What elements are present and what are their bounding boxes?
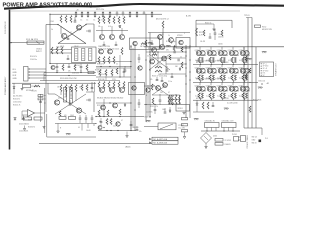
wire double into box	[50, 50, 72, 54]
resistor R147	[155, 66, 162, 68]
capacitor C117b	[115, 42, 118, 46]
label centre right values	[171, 43, 182, 68]
resistor R223	[70, 85, 72, 92]
svg-text:P-8: P-8	[265, 138, 268, 140]
label centre lower	[150, 106, 158, 108]
resistor R127	[103, 17, 105, 24]
transistor Q101	[61, 33, 66, 38]
svg-text:SP +L: SP +L	[263, 63, 267, 65]
resistor R151b in network box	[203, 30, 205, 36]
svg-text:C101: C101	[50, 21, 54, 23]
node dots centre lower2	[145, 94, 173, 105]
output transistor pair Q213/Q218	[217, 47, 229, 65]
label (C)	[227, 103, 238, 105]
node dots bottom mid2	[96, 123, 112, 131]
resistor R144	[108, 57, 110, 64]
svg-text:470: 470	[64, 115, 67, 117]
capacitor C203 filler	[91, 84, 94, 89]
capacitor C127	[171, 73, 174, 78]
label A 1W right of rail	[186, 15, 191, 18]
resistor R230	[118, 82, 120, 89]
resistor R171	[215, 143, 231, 147]
svg-text:47k: 47k	[68, 71, 71, 73]
resistor R152 mount	[255, 25, 273, 31]
output transistor pair Q223/Q228	[217, 64, 229, 82]
label network box rows	[200, 41, 223, 46]
resistor R256 on bus2	[249, 106, 251, 113]
transistor Q206 in box	[132, 86, 136, 90]
svg-text:MT200 0.22 5W MT200 0.22 5W: MT200 0.22 5W MT200 0.22 5W MT200	[196, 61, 225, 63]
capacitor C141	[79, 115, 82, 123]
svg-text:INPUT: INPUT	[36, 51, 43, 53]
resistor R133b in bias box	[145, 40, 147, 46]
resistor R239 filler	[106, 119, 108, 125]
label output row small text	[196, 61, 229, 64]
svg-text:R162 4.7k: R162 4.7k	[13, 104, 20, 106]
connector CN204 body	[238, 136, 246, 142]
diode D104	[14, 118, 16, 120]
svg-text:NO. A-0827-00A: NO. A-0827-00A	[153, 138, 168, 141]
label bottomleft r2	[28, 127, 35, 129]
transistor Q115	[152, 48, 157, 53]
capacitor C103	[56, 64, 59, 73]
label centre lower values	[160, 92, 170, 94]
svg-text:R163 470: R163 470	[28, 127, 35, 129]
filled node square	[259, 140, 262, 143]
svg-text:100/50: 100/50	[218, 37, 224, 39]
transistor Q207	[101, 105, 106, 110]
svg-text:Q214: Q214	[228, 50, 232, 52]
svg-text:C118 0.33: C118 0.33	[72, 73, 79, 75]
svg-text:220: 220	[160, 92, 163, 94]
wire lower mid rail	[96, 116, 144, 118]
label SP RELAY	[32, 91, 38, 93]
resistor R221	[60, 85, 62, 92]
resistor R118 on top rail	[136, 11, 138, 17]
ground triangle bottomleft a	[22, 116, 24, 121]
svg-text:Q234: Q234	[228, 85, 232, 87]
svg-text:CN203 AC OUT: CN203 AC OUT	[222, 119, 234, 122]
svg-text:VR 2k: VR 2k	[140, 46, 144, 48]
svg-text:100/100: 100/100	[133, 127, 139, 129]
svg-text:2.2k: 2.2k	[159, 64, 162, 66]
part number box A-0827	[152, 137, 178, 141]
wire bottom mid bus	[98, 130, 136, 132]
svg-text:0.22: 0.22	[239, 60, 242, 62]
wire centre clutter b	[158, 52, 166, 74]
svg-text:15k: 15k	[57, 87, 60, 89]
svg-text:0.1: 0.1	[78, 127, 80, 129]
wire cluster top	[169, 95, 180, 104]
resistor R146	[121, 48, 123, 55]
output transistor pair Q232/Q237	[206, 82, 218, 100]
thin top sheet edge	[10, 10, 240, 12]
label right edge bottom	[265, 138, 268, 140]
label lower X speck	[64, 115, 67, 117]
svg-text:220: 220	[158, 74, 161, 76]
vertical bus V8	[149, 33, 151, 119]
node dots protect	[44, 95, 45, 103]
diode D105	[179, 68, 181, 70]
fuse F101	[11, 41, 44, 44]
transistor Q102	[76, 25, 81, 30]
wire CN201 feed lines	[254, 60, 256, 62]
capacitor C221	[100, 118, 103, 126]
svg-text:Q225: Q225	[239, 67, 243, 69]
label centre values	[147, 50, 169, 66]
label mid values	[97, 64, 118, 74]
resistor R131	[123, 17, 125, 24]
transistor Q120	[51, 66, 55, 70]
svg-text:470 2.2k 100: 470 2.2k 100	[98, 74, 107, 76]
svg-text:C130 10/50: C130 10/50	[13, 101, 21, 103]
wire output bus B2	[193, 63, 258, 65]
ground chassis RY	[145, 117, 151, 123]
wire mid cross	[96, 67, 131, 78]
pin 3 of CN101	[13, 75, 47, 77]
connector CN203 body	[222, 119, 237, 127]
resistor R153 in network box	[221, 30, 223, 36]
transistor Q108	[169, 38, 174, 43]
resistor R254 on bus	[244, 74, 247, 80]
svg-text:47k: 47k	[150, 79, 153, 81]
output transistor pair Q214/Q219	[228, 47, 240, 65]
label RY201	[179, 125, 186, 130]
resistor R125b	[74, 65, 76, 71]
resistor R150	[196, 28, 204, 37]
resistor R170a filler	[99, 70, 101, 76]
resistor R137	[61, 47, 63, 54]
resistor R158	[181, 47, 183, 52]
svg-text:Q202: Q202	[70, 115, 74, 117]
dot junctions bus V9	[185, 47, 190, 80]
ground triangle SP relay	[21, 88, 35, 92]
label filler row M1	[98, 74, 107, 76]
wire R to driver	[86, 92, 94, 112]
resistor R172a filler	[111, 70, 113, 76]
svg-text:1k: 1k	[51, 29, 53, 31]
svg-text:4.7k: 4.7k	[108, 26, 111, 28]
label bottom left mid specks	[78, 127, 91, 132]
capacitor C120	[178, 59, 179, 62]
svg-text:1k: 1k	[168, 35, 170, 37]
resistor R247	[168, 95, 170, 104]
transistor Q205	[120, 88, 125, 93]
resistor R159	[173, 46, 175, 51]
pin 6 of CN201	[261, 75, 266, 77]
wire mid horizontal a	[50, 63, 96, 65]
svg-text:0.22: 0.22	[228, 60, 231, 62]
svg-text:Q224: Q224	[228, 67, 232, 69]
transistor Q201	[54, 100, 59, 105]
transistor Q113	[108, 49, 113, 54]
resistor R135	[51, 47, 53, 54]
capacitor C126	[124, 66, 127, 71]
svg-text:BTL: BTL	[263, 73, 266, 75]
resistor R126	[98, 17, 100, 24]
wire +B rail top	[144, 46, 284, 48]
pins of CN202	[207, 128, 216, 132]
output transistor pair Q212/Q217	[206, 47, 218, 65]
resistor R122	[65, 16, 67, 23]
capacitor C116	[103, 42, 106, 46]
svg-text:100/50: 100/50	[218, 44, 223, 46]
svg-text:2SC3281: 2SC3281	[222, 98, 229, 100]
vertical bus V7	[145, 14, 147, 122]
device stripe column 1 in box	[75, 49, 78, 61]
resistor R253 on bus	[249, 68, 251, 83]
resistor R226	[98, 82, 100, 89]
vertical bus V5	[130, 45, 132, 131]
wire to driver	[86, 24, 94, 42]
resistor R116 on top rail	[108, 11, 110, 21]
transistor Q208	[113, 103, 118, 108]
capacitor C114	[143, 11, 146, 14]
transistor Q217	[163, 83, 168, 88]
svg-text:0.22: 0.22	[239, 95, 242, 97]
svg-text:1k: 1k	[86, 19, 88, 21]
wire bottom verticals	[82, 124, 94, 131]
svg-text:A 1W: A 1W	[186, 15, 191, 18]
resistor R164	[34, 117, 42, 120]
transistor Q203	[100, 88, 105, 93]
svg-text:+B2: +B2	[266, 83, 269, 85]
wire mid clutter	[96, 55, 131, 77]
svg-text:C100 10u: C100 10u	[30, 59, 37, 61]
resistor R167 stack	[182, 118, 188, 120]
left border of schematic sheet	[9, 10, 11, 150]
wire centre lower cross	[152, 84, 168, 95]
resistor R117 on top rail	[129, 11, 131, 17]
svg-text:BDX 0806: BDX 0806	[253, 100, 261, 102]
op-amp U101 comparator	[28, 110, 35, 117]
svg-text:Q212: Q212	[206, 50, 210, 52]
capacitor C218	[138, 99, 141, 108]
ground chassis near Q108	[166, 46, 171, 48]
wire top supply rail	[50, 13, 162, 15]
output transistor pair Q231/Q236	[195, 82, 207, 100]
capacitor C119	[174, 51, 175, 54]
resistor R124	[62, 65, 64, 71]
wire diff-pair cross R b	[55, 94, 86, 114]
label filler mid rows	[98, 79, 116, 81]
upper mid box	[72, 47, 97, 63]
output transistor pair Q233/Q238	[217, 82, 229, 100]
resistor R128	[108, 17, 110, 24]
svg-text:R142 470: R142 470	[97, 64, 104, 66]
resistor R222	[65, 85, 67, 92]
label row mid page	[97, 98, 123, 100]
resistor R136	[56, 47, 58, 54]
pin 1 of CN201	[261, 63, 267, 65]
wire stub filler	[96, 76, 120, 81]
label centre parts	[152, 76, 167, 78]
transistor Q116	[160, 45, 165, 50]
capacitor C112 on top rail	[116, 11, 119, 17]
node dots mid	[100, 61, 131, 78]
svg-text:SW +B: SW +B	[252, 137, 258, 139]
svg-text:1k: 1k	[147, 56, 149, 58]
ground chassis right of array	[262, 52, 267, 54]
resistor R229	[113, 82, 115, 89]
svg-text:IN L: IN L	[13, 69, 16, 71]
title text POWER AMP ASS'Y	[3, 2, 93, 8]
transistor Q218	[146, 88, 150, 92]
device stripe column 3 in box	[89, 49, 92, 61]
wire centre horizontal	[148, 32, 190, 34]
resistor R224	[75, 85, 77, 92]
resistor R157	[116, 68, 118, 74]
label centre gap specks	[150, 74, 172, 83]
resistor R261	[207, 102, 209, 109]
wire protect verticals	[41, 88, 45, 133]
ground bridge	[204, 144, 207, 149]
label array row gap 1	[196, 61, 225, 63]
label extra CN101 rows	[30, 56, 37, 61]
svg-text:220: 220	[79, 87, 82, 89]
capacitor C125	[214, 29, 224, 40]
capacitor C230	[212, 102, 215, 107]
vertical bus V2	[247, 47, 249, 128]
wire fuse to border	[10, 42, 11, 43]
wire output bus B3	[193, 81, 258, 83]
label bridge	[213, 136, 217, 138]
ground chassis bottom D	[194, 119, 199, 121]
label C118 033	[72, 73, 79, 75]
capacitor C124	[166, 66, 169, 71]
svg-text:Q222: Q222	[206, 67, 210, 69]
vertical device box L2	[70, 88, 73, 104]
ground chassis near Q107	[148, 43, 153, 45]
svg-text:Q215: Q215	[239, 50, 243, 52]
wire centre cross a	[149, 54, 170, 70]
svg-text:47: 47	[121, 120, 123, 122]
svg-text:D104 1N4002: D104 1N4002	[19, 124, 29, 126]
label SPEAKER vertical	[275, 62, 278, 76]
capacitor C202	[69, 100, 72, 105]
wire cluster ties	[169, 95, 180, 104]
svg-text:Q211: Q211	[195, 50, 199, 52]
svg-text:R151 1k: R151 1k	[205, 23, 211, 25]
label bias box specks	[140, 34, 164, 48]
label Q201 Q202	[58, 98, 74, 118]
label bottom mid specks	[99, 120, 139, 129]
wire TP vertical pair	[248, 18, 252, 47]
capacitor C226	[136, 126, 142, 133]
svg-text:R251 10: R251 10	[259, 81, 265, 83]
ground chassis lower array	[224, 108, 229, 110]
capacitor C201	[86, 99, 90, 102]
svg-text:MT-200: MT-200	[196, 98, 202, 100]
capacitor C104	[68, 64, 71, 68]
transistor Q109 in driver box	[179, 40, 183, 44]
label R151 in network box	[205, 23, 211, 25]
svg-text:1k: 1k	[101, 19, 103, 21]
svg-text:R125 15k: R125 15k	[96, 9, 104, 11]
connector CN201 body	[260, 62, 274, 77]
ground triangle bottomleft b	[23, 126, 45, 131]
label filler row L1	[56, 71, 82, 73]
capacitor C106	[67, 55, 70, 60]
svg-text:Q223: Q223	[217, 67, 221, 69]
capacitor C102	[74, 17, 77, 22]
output transistor pair Q235/Q240	[239, 82, 251, 100]
transistor Q204	[110, 88, 115, 93]
label in X specks	[70, 32, 72, 34]
resistor R249	[175, 95, 177, 104]
resistor R236 filler	[81, 85, 83, 91]
wire bottom mid rail	[55, 123, 96, 125]
svg-text:2.2k: 2.2k	[113, 126, 116, 128]
capacitor C118	[138, 54, 141, 63]
output transistor pair Q234/Q239	[228, 82, 240, 100]
svg-text:1k: 1k	[80, 19, 82, 21]
vertical label signal in	[4, 76, 7, 95]
svg-text:SE-B02 SE-B02 SE-B02 SE-: SE-B02 SE-B02 SE-B02 SE-B02	[97, 98, 123, 100]
svg-text:POWER AMP ASS’Y: POWER AMP ASS’Y	[4, 76, 7, 95]
capacitor C225	[164, 108, 167, 113]
resistor R233	[107, 110, 109, 116]
label near box L	[74, 65, 80, 67]
driver box	[176, 38, 190, 49]
transistor Q107	[158, 35, 163, 40]
svg-text:C140 100/25: C140 100/25	[19, 131, 28, 133]
wire centre cross b	[149, 54, 170, 70]
node dots bottom mid	[99, 116, 131, 131]
resistor R250	[179, 95, 181, 104]
svg-text:1k: 1k	[116, 64, 118, 66]
resistor R140	[162, 21, 164, 28]
wire protect drop	[45, 83, 47, 112]
connector CN101 body	[24, 67, 29, 82]
node dots centre lower	[147, 85, 176, 117]
vertical label POWER TRANS	[246, 134, 249, 148]
resistor R228	[108, 82, 110, 89]
resistor R125c	[86, 65, 88, 71]
ground triangle centre	[183, 112, 186, 114]
wire Q101 emitter	[58, 26, 86, 44]
resistor R114 on top rail	[93, 11, 95, 21]
svg-text:Q232: Q232	[206, 85, 210, 87]
svg-text:SP GND: SP GND	[263, 70, 270, 72]
resistor R160	[34, 85, 40, 87]
resistor R241 filler	[59, 111, 61, 116]
label Q101	[60, 46, 78, 48]
output transistor pair Q224/Q229	[228, 64, 240, 82]
svg-text:10k 1W: 10k 1W	[200, 41, 206, 43]
vertical bus V9	[185, 45, 187, 118]
svg-text:D205: D205	[213, 136, 217, 138]
resistor R161	[38, 95, 43, 97]
svg-text:Q231: Q231	[195, 85, 199, 87]
svg-text:0.22: 0.22	[217, 95, 220, 97]
resistor R119	[151, 11, 153, 17]
svg-text:Q233: Q233	[217, 85, 221, 87]
svg-text:5100-0P90-00: 5100-0P90-00	[5, 20, 7, 34]
resistor R248	[172, 95, 174, 104]
svg-text:0.22: 0.22	[195, 95, 198, 97]
label protect	[28, 120, 32, 122]
label bottomleft r1	[19, 124, 29, 126]
resistor R260	[202, 102, 204, 109]
svg-text:0.22: 0.22	[228, 95, 231, 97]
svg-text:R101 47k: R101 47k	[30, 56, 37, 58]
vr box VR201	[176, 105, 190, 112]
node dots centre	[145, 51, 186, 76]
wire CN101 feed	[45, 69, 47, 83]
resistor R132 in box	[141, 43, 147, 45]
label array row gap 2	[196, 79, 225, 81]
